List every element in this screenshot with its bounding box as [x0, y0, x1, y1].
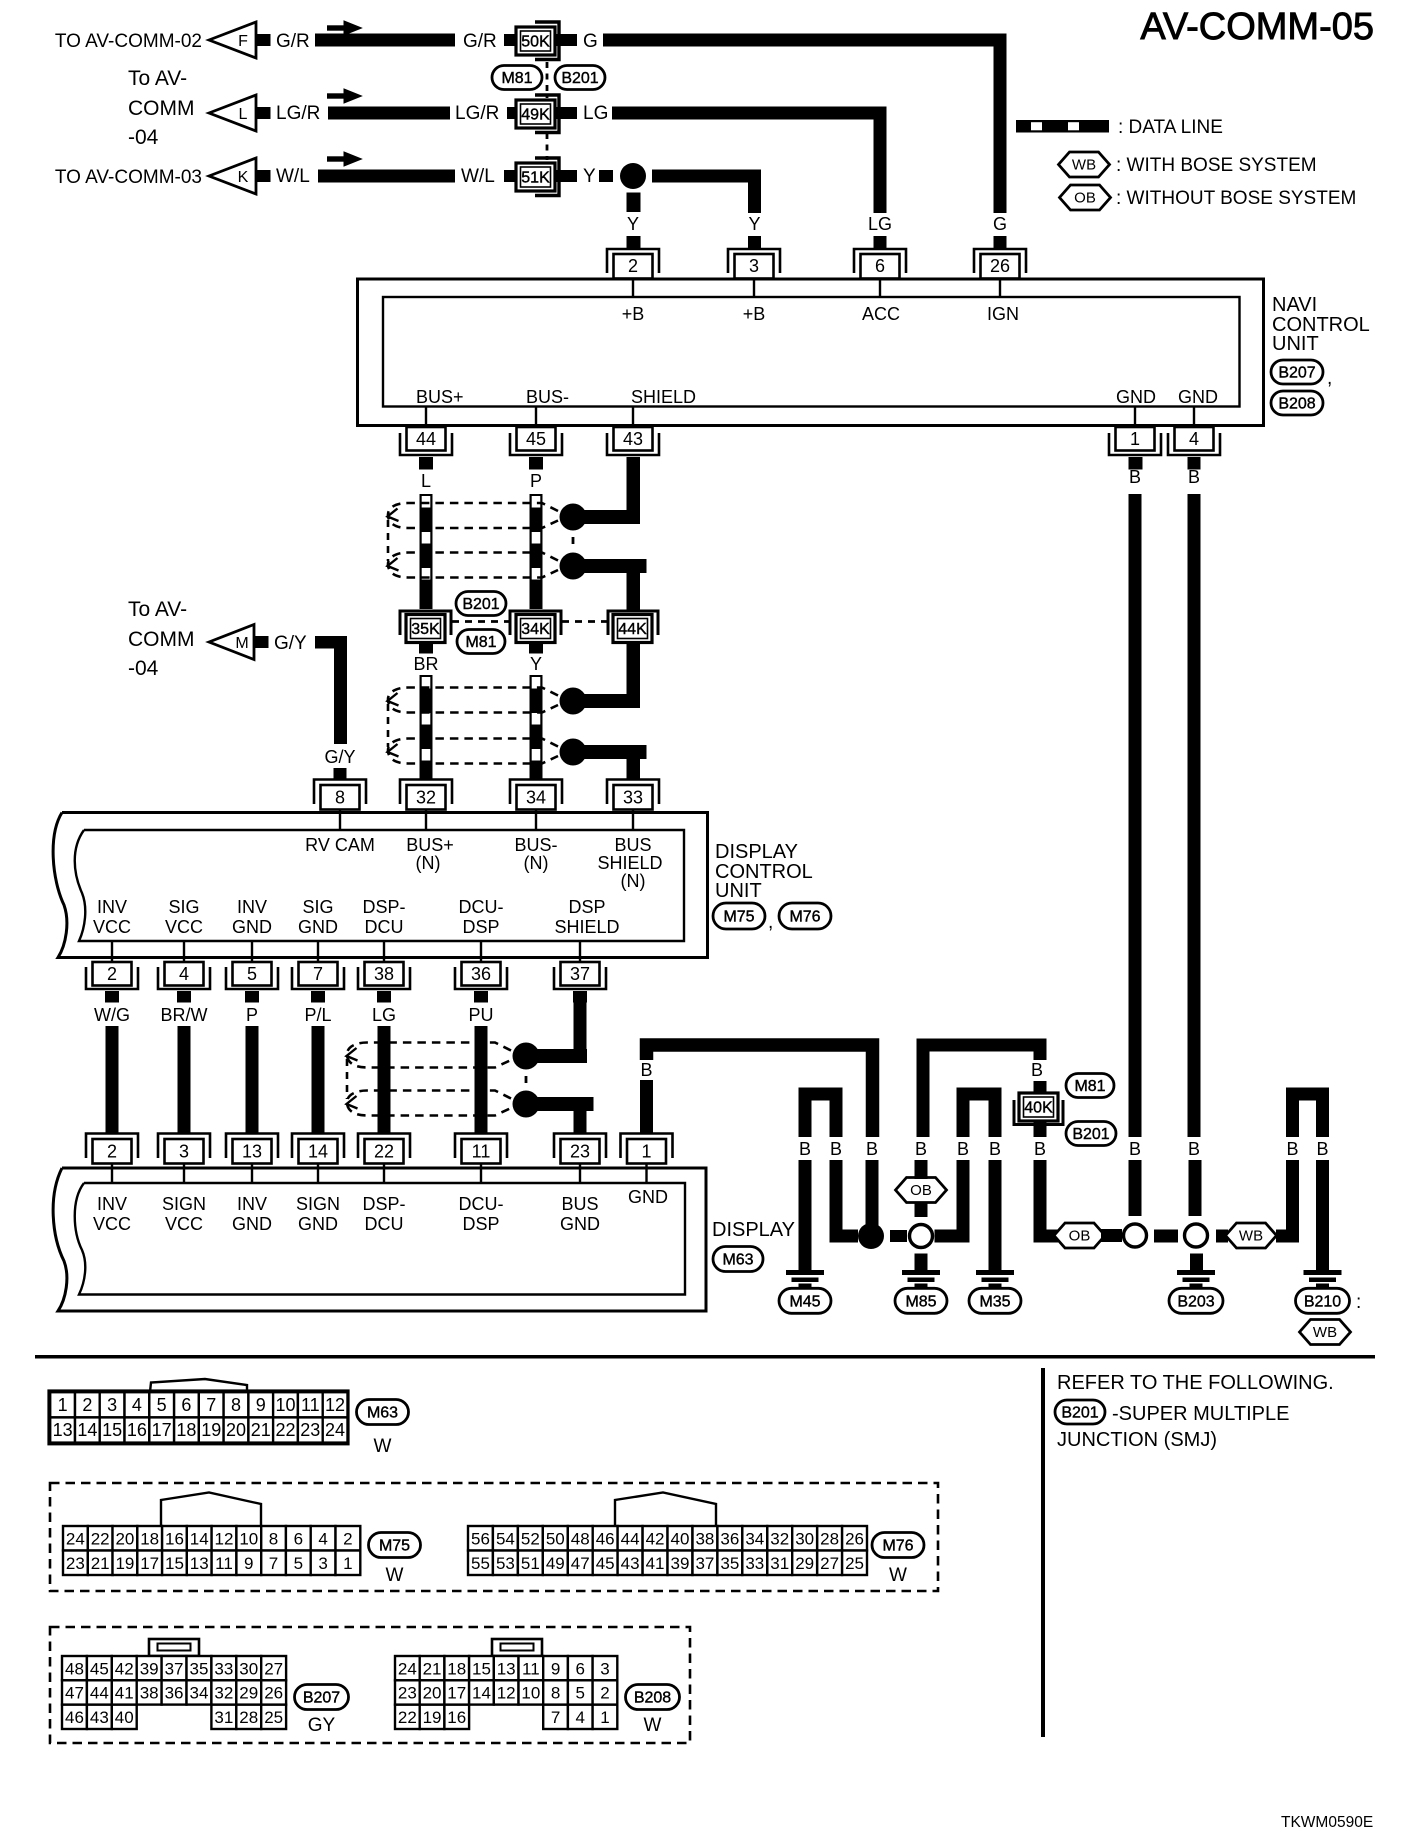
svg-text:5: 5 — [157, 1395, 167, 1415]
off-page connector F to AV-COMM-02 — [209, 22, 271, 58]
svg-text:G/Y: G/Y — [324, 747, 355, 767]
pin label INV GND — [232, 897, 272, 937]
svg-text:INV: INV — [97, 1194, 127, 1214]
svg-text:: DATA LINE: : DATA LINE — [1118, 117, 1223, 138]
NAVI control unit inner box — [383, 297, 1240, 407]
svg-text:20: 20 — [423, 1684, 442, 1703]
shield loop lower A — [388, 688, 559, 713]
pin label BUS SHIELD (N) — [597, 835, 662, 891]
wire LG — [372, 991, 396, 1133]
svg-text:14: 14 — [190, 1529, 209, 1548]
DCU pin 33 — [607, 780, 659, 831]
DISPLAY pin 3 — [158, 1134, 210, 1184]
svg-text:GND: GND — [298, 1214, 338, 1234]
pin label DCU-DSP — [459, 897, 504, 937]
svg-text:34K: 34K — [521, 621, 550, 638]
pin label INV VCC — [93, 897, 131, 937]
svg-text:52: 52 — [521, 1529, 540, 1548]
svg-text:42: 42 — [646, 1529, 665, 1548]
shield drain junction dot — [560, 504, 587, 531]
svg-text:40: 40 — [115, 1708, 134, 1727]
svg-text:23: 23 — [300, 1420, 320, 1440]
wire label LG — [583, 103, 608, 124]
wire link — [1154, 1230, 1178, 1243]
svg-text:LG/R: LG/R — [455, 103, 499, 124]
DCU pin 5 — [226, 942, 278, 989]
wire shield drain to 44K — [573, 559, 647, 611]
NAVI pin 1 — [1109, 407, 1161, 456]
svg-text:3: 3 — [107, 1395, 117, 1415]
svg-text:REFER TO THE FOLLOWING.: REFER TO THE FOLLOWING. — [1057, 1372, 1334, 1394]
svg-text:16: 16 — [165, 1529, 184, 1548]
svg-text:NAVI: NAVI — [1272, 294, 1317, 316]
svg-text:W/L: W/L — [276, 166, 310, 187]
svg-text:L: L — [421, 471, 431, 491]
wire B elbow to junction — [836, 1160, 858, 1236]
svg-text:M75: M75 — [379, 1538, 410, 1555]
svg-text:30: 30 — [239, 1659, 258, 1678]
svg-text:43: 43 — [623, 429, 643, 449]
svg-text:3: 3 — [749, 256, 759, 276]
svg-text:45: 45 — [526, 429, 546, 449]
svg-text:B: B — [640, 1060, 652, 1080]
NAVI control unit outer box — [358, 279, 1264, 426]
wire label G/R at SMJ — [463, 31, 497, 52]
wire label G/Y — [274, 633, 307, 654]
svg-text:JUNCTION (SMJ): JUNCTION (SMJ) — [1057, 1429, 1217, 1451]
svg-text:29: 29 — [795, 1554, 814, 1573]
svg-text:ACC: ACC — [862, 304, 900, 324]
svg-text:GND: GND — [298, 917, 338, 937]
flag WB under B210 — [1300, 1320, 1351, 1345]
display control unit inner box — [75, 830, 684, 941]
svg-text:B201: B201 — [1061, 1405, 1098, 1422]
pin label SIGN GND — [296, 1194, 340, 1234]
SMJ terminal 50K — [516, 27, 555, 55]
svg-text:VCC: VCC — [93, 1214, 131, 1234]
svg-text:B208: B208 — [1278, 396, 1315, 413]
svg-text:B203: B203 — [1177, 1293, 1214, 1310]
svg-text:B207: B207 — [303, 1690, 340, 1707]
junction circle open — [910, 1225, 933, 1248]
pin label ACC — [862, 304, 900, 324]
svg-text:B: B — [1129, 467, 1141, 487]
svg-text:VCC: VCC — [93, 917, 131, 937]
wire link — [935, 1230, 970, 1243]
svg-text:36: 36 — [471, 964, 491, 984]
svg-text:OB: OB — [1069, 1228, 1091, 1245]
SMJ bracket — [535, 95, 559, 133]
svg-text:49: 49 — [546, 1554, 565, 1573]
svg-text:17: 17 — [152, 1420, 172, 1440]
connector face M76 — [468, 1526, 867, 1575]
off-page connector K to AV-COMM-03 — [209, 158, 271, 194]
pin label DCU-DSP — [459, 1194, 504, 1234]
wire W/L segment — [276, 166, 455, 187]
direction arrow — [327, 21, 362, 35]
svg-text:27: 27 — [264, 1659, 283, 1678]
svg-text:33: 33 — [623, 788, 643, 808]
svg-text:31: 31 — [214, 1708, 233, 1727]
svg-text:B201: B201 — [462, 596, 499, 613]
svg-text:19: 19 — [201, 1420, 221, 1440]
svg-text:DCU: DCU — [365, 917, 404, 937]
svg-text:W: W — [386, 1565, 404, 1586]
svg-text:G: G — [583, 31, 598, 52]
svg-text:38: 38 — [374, 964, 394, 984]
wire 44K down — [627, 643, 641, 709]
junction circle open — [1124, 1224, 1147, 1247]
svg-text:+B: +B — [743, 304, 766, 324]
svg-text:8: 8 — [551, 1684, 560, 1703]
pin label +B — [622, 304, 645, 324]
svg-text:18: 18 — [447, 1659, 466, 1678]
svg-text:2: 2 — [343, 1529, 352, 1548]
svg-text:51K: 51K — [521, 170, 550, 187]
svg-text:9: 9 — [244, 1554, 253, 1573]
svg-text:BUS-: BUS- — [526, 387, 569, 407]
connector label B208 — [626, 1685, 680, 1737]
svg-text:7: 7 — [313, 964, 323, 984]
svg-text:23: 23 — [398, 1684, 417, 1703]
svg-text:M75: M75 — [723, 909, 754, 926]
B label — [915, 1139, 927, 1159]
NAVI pin 45 — [510, 407, 562, 456]
svg-text:M85: M85 — [905, 1293, 936, 1310]
SMJ terminal 35K — [406, 615, 445, 643]
svg-text:11: 11 — [301, 1395, 320, 1415]
svg-text:,: , — [768, 912, 773, 933]
svg-text:5: 5 — [294, 1554, 303, 1573]
svg-text:DCU: DCU — [365, 1214, 404, 1234]
svg-text:24: 24 — [325, 1420, 345, 1440]
SMJ terminal 34K — [516, 615, 555, 643]
svg-text:LG: LG — [868, 214, 892, 234]
svg-text:26: 26 — [264, 1684, 283, 1703]
wire stub — [1034, 1121, 1047, 1137]
svg-text:DCU-: DCU- — [459, 897, 504, 917]
B label — [1034, 1139, 1046, 1159]
svg-text:SIG: SIG — [168, 897, 199, 917]
pin label SIG VCC — [165, 897, 203, 937]
svg-text:GND: GND — [232, 1214, 272, 1234]
svg-text:M45: M45 — [789, 1293, 820, 1310]
svg-text:BR: BR — [413, 654, 438, 674]
svg-text:To AV-: To AV- — [128, 67, 187, 90]
svg-text:SHIELD: SHIELD — [597, 853, 662, 873]
SMJ dashed link — [546, 62, 549, 98]
shield drain junction dot — [513, 1043, 540, 1070]
svg-text:GND: GND — [1116, 387, 1156, 407]
svg-text:51: 51 — [521, 1554, 540, 1573]
wire stub — [1034, 1081, 1047, 1093]
svg-text:L: L — [239, 106, 248, 123]
shield loop upper B — [388, 553, 559, 578]
svg-text:M81: M81 — [465, 634, 496, 651]
connector label B207 — [1271, 360, 1332, 389]
svg-text:41: 41 — [115, 1684, 134, 1703]
svg-text:BUS: BUS — [614, 835, 651, 855]
svg-text:DSP-: DSP- — [362, 897, 405, 917]
connector face M75 — [63, 1526, 360, 1575]
wire stub — [556, 107, 577, 119]
svg-text:2: 2 — [628, 256, 638, 276]
svg-text:49K: 49K — [521, 107, 550, 124]
svg-text:38: 38 — [140, 1684, 159, 1703]
B label — [957, 1139, 969, 1159]
junction dot — [858, 1223, 884, 1249]
wire DSP SHIELD from pin 37 — [573, 991, 587, 1063]
svg-text:,: , — [1327, 368, 1332, 389]
svg-text:Y: Y — [530, 654, 542, 674]
SMJ terminal 40K — [1019, 1093, 1058, 1121]
pin label DSP-DCU — [362, 1194, 405, 1234]
SMJ bracket — [535, 158, 559, 196]
NAVI pin 2 — [607, 249, 659, 296]
title AV-COMM-05 — [1140, 6, 1374, 48]
svg-text:BUS+: BUS+ — [416, 387, 464, 407]
B label — [1031, 1060, 1043, 1080]
dashed group box M75 M76 — [50, 1483, 938, 1591]
dashed link between dots — [572, 537, 575, 549]
wire G to IGN pin 26 — [603, 34, 1007, 47]
wire shield drain to pin 37 — [526, 1049, 587, 1063]
legend OB without bose system — [1060, 185, 1357, 210]
svg-text:SHIELD: SHIELD — [554, 917, 619, 937]
wire B hoop left — [805, 1094, 836, 1137]
svg-text:32: 32 — [770, 1529, 789, 1548]
svg-text:47: 47 — [571, 1554, 590, 1573]
svg-text:40: 40 — [671, 1529, 690, 1548]
NAVI pin 3 — [728, 249, 780, 296]
svg-text:8: 8 — [335, 788, 345, 808]
svg-text:26: 26 — [990, 256, 1010, 276]
wire stub — [507, 107, 517, 119]
connector label B207 — [295, 1685, 349, 1737]
wire shield drain to pin 43 — [573, 510, 640, 524]
svg-text:20: 20 — [115, 1529, 134, 1548]
svg-text:22: 22 — [275, 1420, 295, 1440]
svg-text:W/L: W/L — [461, 166, 495, 187]
pin label INV VCC — [93, 1194, 131, 1234]
SMJ bracket — [400, 611, 451, 635]
connector label M81 — [492, 66, 542, 90]
connector M63 tab — [150, 1379, 247, 1392]
wire label TO AV-COMM-02 — [55, 31, 202, 52]
shield loop display A — [347, 1043, 512, 1068]
svg-text:14: 14 — [308, 1142, 328, 1162]
flag OB — [1054, 1223, 1105, 1248]
svg-text:24: 24 — [66, 1529, 85, 1548]
svg-text:6: 6 — [576, 1659, 585, 1678]
svg-text:WB: WB — [1239, 1228, 1263, 1245]
svg-text:Y: Y — [748, 214, 760, 234]
connector face B207 — [62, 1656, 286, 1729]
wire circle to ground M85 — [915, 1254, 928, 1271]
svg-text:22: 22 — [91, 1529, 110, 1548]
junction circle open — [1185, 1224, 1208, 1247]
svg-text:36: 36 — [165, 1684, 184, 1703]
off-page connector L to AV-COMM-04 — [209, 95, 271, 131]
wire link — [1101, 1229, 1122, 1242]
svg-text:10: 10 — [275, 1395, 295, 1415]
svg-text:M: M — [235, 635, 248, 652]
svg-text:: WITHOUT BOSE SYSTEM: : WITHOUT BOSE SYSTEM — [1116, 188, 1356, 209]
svg-text:9: 9 — [551, 1659, 560, 1678]
drawing number TKWM0590E — [1281, 1814, 1373, 1831]
svg-text:32: 32 — [214, 1684, 233, 1703]
direction arrow — [327, 89, 362, 103]
connector face M63 — [49, 1391, 348, 1444]
svg-text:1: 1 — [641, 1142, 651, 1162]
DISPLAY pin 22 — [358, 1134, 410, 1184]
svg-text:4: 4 — [179, 964, 189, 984]
svg-text:46: 46 — [65, 1708, 84, 1727]
pin label BUS- — [526, 387, 569, 407]
wire P — [245, 991, 259, 1133]
svg-text:M81: M81 — [1074, 1078, 1105, 1095]
svg-text:AV-COMM-05: AV-COMM-05 — [1140, 6, 1374, 48]
svg-text:9: 9 — [256, 1395, 266, 1415]
shield drain junction dot — [513, 1091, 540, 1118]
svg-text:12: 12 — [215, 1529, 234, 1548]
svg-text:7: 7 — [551, 1708, 560, 1727]
svg-text:15: 15 — [102, 1420, 122, 1440]
wire P/L — [304, 991, 331, 1133]
svg-text:50K: 50K — [521, 34, 550, 51]
svg-text:SIGN: SIGN — [296, 1194, 340, 1214]
svg-text:DCU-: DCU- — [459, 1194, 504, 1214]
svg-text:11: 11 — [522, 1659, 540, 1678]
ground M45 — [779, 1270, 831, 1313]
legend data line symbol — [1016, 117, 1223, 138]
SMJ bracket — [510, 611, 561, 635]
NAVI pin 44 — [400, 407, 452, 456]
svg-text:12: 12 — [325, 1395, 345, 1415]
svg-text:50: 50 — [546, 1529, 565, 1548]
svg-text:7: 7 — [206, 1395, 216, 1415]
svg-text:54: 54 — [496, 1529, 515, 1548]
svg-text:33: 33 — [745, 1554, 764, 1573]
pin label IGN — [987, 304, 1019, 324]
svg-text:TO AV-COMM-03: TO AV-COMM-03 — [55, 167, 202, 188]
svg-text:P/L: P/L — [304, 1005, 331, 1025]
svg-text:M81: M81 — [501, 70, 532, 87]
wire BR to pin 32 — [413, 642, 438, 779]
svg-text:DSP: DSP — [462, 1214, 499, 1234]
SMJ terminal 49K — [516, 100, 555, 128]
svg-text:(N): (N) — [524, 853, 549, 873]
svg-text:44: 44 — [90, 1684, 109, 1703]
svg-text:P: P — [530, 471, 542, 491]
svg-text:DSP: DSP — [568, 897, 605, 917]
ground M85 — [895, 1270, 947, 1313]
wire B to ground B210 — [1316, 1160, 1329, 1270]
svg-text:37: 37 — [570, 964, 590, 984]
svg-text:38: 38 — [695, 1529, 714, 1548]
svg-text:OB: OB — [910, 1182, 932, 1199]
ground B210 — [1296, 1270, 1362, 1313]
svg-text:TKWM0590E: TKWM0590E — [1281, 1814, 1373, 1831]
svg-text:B: B — [1286, 1139, 1298, 1159]
svg-text:+B: +B — [622, 304, 645, 324]
svg-text:5: 5 — [247, 964, 257, 984]
svg-text:21: 21 — [251, 1420, 271, 1440]
SMJ dashed link — [452, 620, 509, 623]
note super multiple — [1112, 1403, 1289, 1425]
svg-text:M63: M63 — [722, 1252, 753, 1269]
svg-text:LG/R: LG/R — [276, 103, 320, 124]
svg-text:GND: GND — [628, 1187, 668, 1207]
svg-text:BUS-: BUS- — [514, 835, 557, 855]
svg-text:43: 43 — [621, 1554, 640, 1573]
svg-text:27: 27 — [820, 1554, 839, 1573]
svg-text:UNIT: UNIT — [715, 880, 762, 902]
svg-text:INV: INV — [237, 897, 267, 917]
wire shield drain — [573, 694, 640, 708]
svg-text:13: 13 — [190, 1554, 209, 1573]
svg-text:10: 10 — [239, 1529, 258, 1548]
svg-text:44K: 44K — [618, 621, 647, 638]
wire P from pin 45 — [529, 457, 543, 609]
DCU pin 2 — [86, 942, 138, 989]
connector label B208 — [1271, 391, 1323, 415]
DISPLAY pin 1 — [621, 1134, 673, 1184]
svg-text:G/Y: G/Y — [274, 633, 307, 654]
wire B from NAVI pin 1 — [1129, 457, 1143, 1216]
svg-text:15: 15 — [472, 1659, 491, 1678]
unit name DISPLAY — [712, 1219, 795, 1241]
svg-text:34: 34 — [189, 1684, 208, 1703]
ground M35 — [969, 1270, 1021, 1313]
svg-text:21: 21 — [91, 1554, 110, 1573]
DCU pin 36 — [455, 942, 507, 989]
wire G/R segment — [276, 31, 455, 52]
NAVI pin 4 — [1168, 407, 1220, 456]
connector label B201 — [555, 66, 605, 90]
pin label BUS- (N) — [514, 835, 557, 873]
pin label BUS+ (N) — [406, 835, 454, 873]
svg-text:(N): (N) — [416, 853, 441, 873]
svg-text:48: 48 — [571, 1529, 590, 1548]
connector label M75 — [713, 903, 773, 933]
svg-text:(N): (N) — [621, 871, 646, 891]
shield loop lower B — [388, 739, 559, 764]
pin label SIG GND — [298, 897, 338, 937]
svg-text:22: 22 — [374, 1142, 394, 1162]
svg-text:18: 18 — [176, 1420, 196, 1440]
svg-text:B: B — [1031, 1060, 1043, 1080]
svg-text:29: 29 — [239, 1684, 258, 1703]
svg-text:16: 16 — [447, 1708, 466, 1727]
B label — [830, 1139, 842, 1159]
wire PU — [468, 991, 493, 1133]
wire stub — [504, 34, 517, 46]
shield drain junction dot — [560, 553, 587, 580]
wire W/G — [94, 991, 130, 1133]
svg-text:B: B — [799, 1139, 811, 1159]
wire shield drain to pin 33 — [573, 745, 647, 779]
svg-text:30: 30 — [795, 1529, 814, 1548]
wire LG/R segment — [276, 103, 450, 124]
label To AV-COMM-04 (M) — [128, 598, 195, 680]
DCU pin 38 — [358, 942, 410, 989]
SMJ terminal 51K — [516, 163, 555, 191]
pin label BUS+ — [416, 387, 464, 407]
ground B203 — [1169, 1270, 1223, 1313]
svg-text:OB: OB — [1074, 190, 1096, 207]
svg-text:44: 44 — [621, 1529, 640, 1548]
